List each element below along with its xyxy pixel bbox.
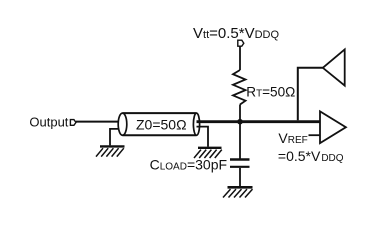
ground left	[96, 146, 125, 156]
wire transmission line right shield stub	[197, 127, 209, 147]
ground bottom	[223, 187, 253, 197]
wire from top buffer apex	[298, 68, 323, 121]
svg-text:Z0=50Ω: Z0=50Ω	[136, 117, 187, 133]
receiver buffer (right-pointing triangle)	[320, 111, 346, 143]
wire VREF to receiver	[309, 134, 321, 136]
wire transmission line left shield stub	[110, 129, 119, 146]
buffer top (left-pointing triangle)	[323, 49, 345, 85]
svg-text:RT=50Ω: RT=50Ω	[246, 85, 295, 100]
node junction dot	[237, 119, 243, 125]
resistor RT	[233, 70, 246, 105]
wire Vtt terminal to resistor top	[239, 46, 241, 70]
wire resistor bottom to capacitor top	[239, 105, 241, 159]
wire main net (thick)	[197, 120, 321, 123]
ground right	[194, 148, 222, 158]
wire capacitor to ground	[239, 168, 241, 186]
svg-text:Output: Output	[29, 114, 68, 129]
terminal Vtt port	[238, 40, 244, 46]
transmission line Z0 body	[118, 113, 199, 135]
wire Output to transmission line	[76, 121, 118, 123]
capacitor CLOAD	[230, 160, 250, 167]
terminal Output port	[70, 120, 76, 126]
